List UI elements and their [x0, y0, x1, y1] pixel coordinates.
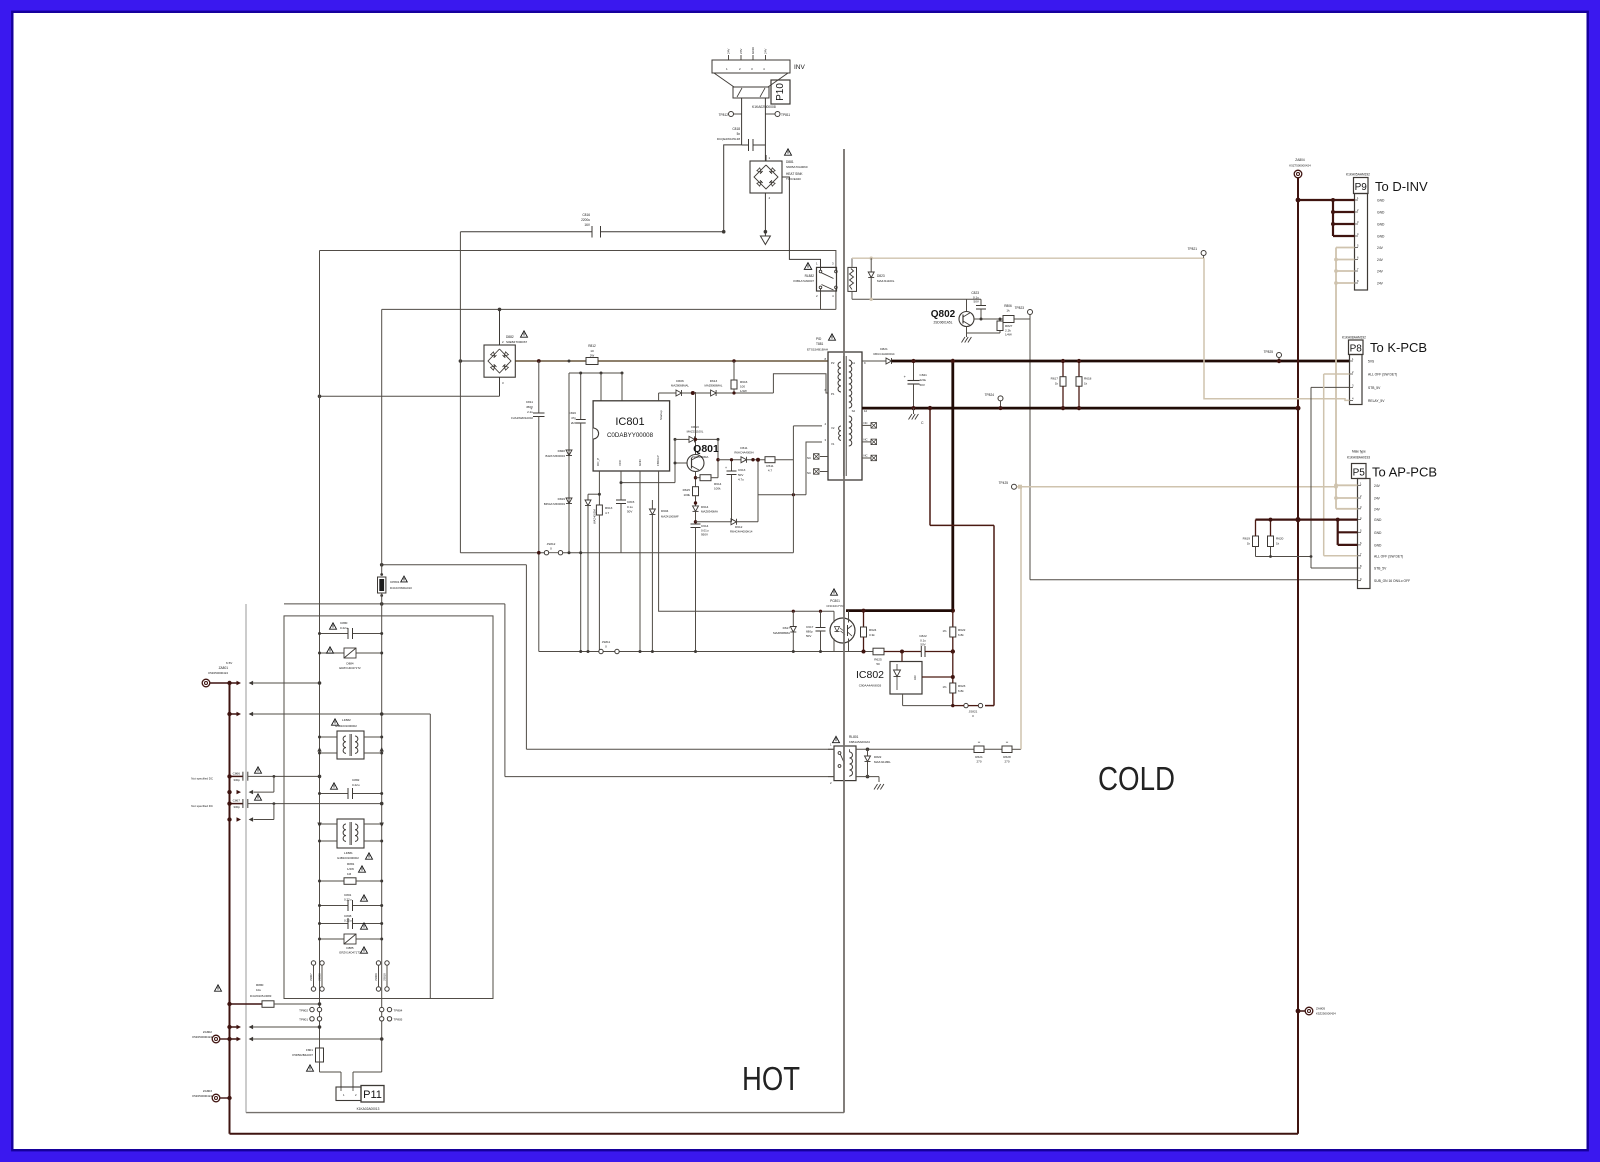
svg-text:RELAY_5V: RELAY_5V [1368, 399, 1385, 403]
svg-text:2.2u: 2.2u [527, 410, 533, 414]
svg-text:1k: 1k [1276, 542, 1280, 546]
svg-text:ALL OFF (SW DET): ALL OFF (SW DET) [1368, 373, 1397, 377]
svg-text:950V: 950V [701, 533, 708, 537]
svg-text:220u: 220u [920, 378, 927, 382]
svg-text:5VS: 5VS [1368, 360, 1375, 364]
svg-text:HOT: HOT [742, 1060, 800, 1097]
svg-text:S0EB4T000067: S0EB4T000067 [506, 340, 528, 344]
svg-text:R880: R880 [256, 983, 264, 987]
svg-text:1%: 1% [942, 629, 947, 633]
svg-text:24V: 24V [764, 48, 768, 54]
svg-text:24V: 24V [1377, 282, 1384, 286]
svg-text:LF882: LF882 [342, 718, 351, 722]
svg-text:V2: V2 [831, 426, 835, 430]
svg-text:C614: C614 [701, 524, 709, 528]
svg-text:K1KA08AAM192: K1KA08AAM192 [1342, 336, 1366, 340]
svg-text:C818: C818 [732, 127, 740, 131]
svg-text:P10: P10 [775, 83, 786, 101]
svg-text:50V: 50V [806, 634, 811, 638]
svg-text:4.7: 4.7 [605, 511, 610, 515]
svg-text:TP825: TP825 [1264, 350, 1274, 354]
svg-text:100: 100 [740, 385, 745, 389]
svg-text:1%: 1% [942, 685, 947, 689]
svg-text:1/4W: 1/4W [740, 389, 747, 393]
svg-text:JS810: JS810 [383, 973, 387, 981]
svg-text:S1: S1 [852, 361, 856, 365]
svg-text:ERZV14D471T2: ERZV14D471T2 [339, 666, 361, 670]
svg-text:0.22u: 0.22u [340, 626, 348, 630]
svg-text:G4B1031000002: G4B1031000002 [335, 724, 357, 728]
svg-text:50V: 50V [920, 643, 925, 647]
svg-text:ALL OFF (SW DET): ALL OFF (SW DET) [1374, 554, 1403, 558]
svg-text:6.8k: 6.8k [958, 633, 964, 637]
svg-text:2SD0601A5L: 2SD0601A5L [934, 321, 953, 325]
svg-text:Not specified DC: Not specified DC [191, 777, 213, 781]
svg-text:MAZ8068MA: MAZ8068MA [773, 631, 790, 635]
svg-text:K1KA02A00013: K1KA02A00013 [357, 1107, 380, 1111]
svg-text:Male type: Male type [1352, 450, 1366, 454]
svg-text:P11: P11 [363, 1089, 382, 1101]
svg-text:330p: 330p [233, 805, 240, 809]
svg-text:NC: NC [807, 471, 811, 475]
svg-text:D612: D612 [735, 525, 743, 529]
svg-text:C821: C821 [920, 373, 928, 377]
svg-text:D819: D819 [558, 497, 566, 501]
svg-text:4.7: 4.7 [768, 469, 773, 473]
svg-text:JS809: JS809 [374, 973, 378, 981]
svg-text:GND: GND [1377, 199, 1385, 203]
svg-text:F2A2W2R2A002: F2A2W2R2A002 [511, 416, 533, 420]
svg-text:10u: 10u [256, 988, 261, 992]
svg-text:6.8k: 6.8k [958, 689, 964, 693]
svg-text:STB_5V: STB_5V [1374, 567, 1387, 571]
svg-text:12: 12 [864, 409, 868, 413]
svg-text:D821: D821 [880, 347, 888, 351]
svg-text:TP821: TP821 [1188, 247, 1198, 251]
svg-text:24V: 24V [739, 48, 743, 54]
svg-text:K5D502B4A007: K5D502B4A007 [292, 1053, 313, 1057]
svg-text:ZA802: ZA802 [203, 1030, 212, 1034]
svg-text:R617: R617 [1051, 377, 1059, 381]
svg-text:R812: R812 [588, 344, 596, 348]
svg-text:JS812: JS812 [547, 542, 556, 546]
svg-text:C90AA4AK8003: C90AA4AK8003 [859, 684, 882, 688]
svg-text:0.22u: 0.22u [344, 919, 352, 923]
svg-text:1k: 1k [1247, 542, 1251, 546]
svg-text:24V: 24V [1377, 246, 1384, 250]
svg-text:C880: C880 [340, 621, 348, 625]
svg-text:24V: 24V [1377, 258, 1384, 262]
svg-text:D823: D823 [877, 274, 885, 278]
svg-text:1k: 1k [1084, 382, 1088, 386]
svg-text:MAZJ11180L: MAZJ11180L [874, 760, 891, 764]
svg-text:FB/OLP: FB/OLP [656, 455, 660, 466]
svg-text:GND: GND [751, 46, 755, 54]
svg-text:R6HC4A4000H14: R6HC4A4000H14 [730, 530, 753, 534]
svg-text:24V: 24V [1374, 497, 1381, 501]
svg-text:INV: INV [794, 64, 806, 71]
svg-text:NC: NC [864, 454, 868, 458]
svg-text:C866: C866 [233, 772, 241, 776]
svg-text:2kV: 2kV [571, 421, 576, 425]
svg-text:C882: C882 [352, 778, 360, 782]
svg-text:RL882: RL882 [805, 274, 815, 278]
svg-text:To AP-PCB: To AP-PCB [1372, 465, 1437, 480]
svg-text:K6B1A7A60007: K6B1A7A60007 [793, 279, 814, 283]
svg-text:450V: 450V [526, 405, 533, 409]
svg-text:JS811: JS811 [602, 640, 611, 644]
svg-text:24V: 24V [1374, 484, 1381, 488]
svg-text:D4U/D105-D083: D4U/D105-D083 [250, 994, 272, 998]
svg-text:680p: 680p [806, 630, 813, 634]
svg-text:MAZ41000MF: MAZ41000MF [661, 515, 679, 519]
svg-text:GND: GND [1377, 235, 1385, 239]
svg-text:2SK2996MA: 2SK2996MA [692, 455, 709, 459]
svg-text:R621: R621 [975, 755, 983, 759]
svg-text:S6FBA70A0060: S6FBA70A0060 [786, 165, 808, 169]
svg-text:ZA805: ZA805 [1316, 1007, 1325, 1011]
svg-text:R613: R613 [605, 506, 613, 510]
svg-text:K5Z7500000424: K5Z7500000424 [1289, 164, 1311, 168]
svg-text:NC: NC [864, 421, 868, 425]
svg-text:0.22u: 0.22u [352, 783, 360, 787]
svg-text:TP425: TP425 [999, 481, 1009, 485]
svg-text:100k: 100k [683, 493, 690, 497]
svg-text:270: 270 [1004, 760, 1009, 764]
svg-text:R616: R616 [740, 380, 748, 384]
svg-text:VCC: VCC [618, 459, 622, 466]
svg-text:3.3k: 3.3k [869, 633, 875, 637]
svg-text:R615: R615 [683, 488, 691, 492]
svg-text:R6UC4A400014: R6UC4A400014 [873, 352, 894, 356]
svg-text:C816: C816 [582, 213, 590, 217]
svg-text:D606: D606 [676, 379, 684, 383]
svg-text:TP805: TP805 [394, 1018, 403, 1022]
svg-text:C816: C816 [569, 411, 577, 415]
svg-text:GND: GND [1377, 211, 1385, 215]
svg-text:F801: F801 [306, 1048, 313, 1052]
svg-text:MAZJ11100L: MAZJ11100L [877, 279, 895, 283]
svg-text:R624: R624 [869, 628, 877, 632]
svg-text:DCQE2W105L38: DCQE2W105L38 [717, 137, 741, 141]
svg-text:50V: 50V [738, 473, 743, 477]
svg-text:R806: R806 [1004, 304, 1012, 308]
svg-text:JS807: JS807 [309, 973, 313, 981]
svg-text:1k: 1k [1006, 309, 1010, 313]
svg-text:JS808: JS808 [318, 973, 322, 981]
svg-text:R619: R619 [1243, 537, 1251, 541]
svg-text:GND: GND [1374, 543, 1382, 547]
svg-text:R623: R623 [958, 684, 966, 688]
svg-text:D611: D611 [740, 446, 747, 450]
svg-text:D885: D885 [346, 946, 354, 950]
svg-text:Q801: Q801 [693, 443, 719, 455]
svg-text:2200u: 2200u [581, 218, 590, 222]
svg-text:50: 50 [876, 662, 880, 666]
svg-text:D617: D617 [783, 626, 791, 630]
svg-text:1k: 1k [1055, 382, 1059, 386]
svg-text:24V: 24V [1377, 270, 1384, 274]
svg-text:330p: 330p [233, 778, 240, 782]
svg-text:WAZ4003M: WAZ4003M [593, 509, 597, 524]
svg-text:B45AA72600001: B45AA72600001 [544, 502, 566, 506]
svg-text:ZA804: ZA804 [1295, 158, 1305, 162]
svg-text:R611: R611 [766, 464, 773, 468]
svg-text:LF881: LF881 [344, 851, 353, 855]
svg-text:D884: D884 [346, 662, 354, 666]
svg-text:K5Z250000424: K5Z250000424 [1316, 1012, 1336, 1016]
svg-text:PID: PID [816, 337, 822, 341]
svg-text:S2: S2 [852, 409, 856, 413]
svg-text:PC801: PC801 [830, 599, 840, 603]
svg-text:K1KA08AA0193: K1KA08AA0193 [1347, 456, 1370, 460]
svg-text:K1KA02N00008: K1KA02N00008 [752, 105, 776, 109]
svg-text:0.1u: 0.1u [627, 505, 633, 509]
svg-text:V1: V1 [831, 442, 835, 446]
svg-text:+: + [725, 466, 727, 470]
svg-text:COLD: COLD [1098, 760, 1175, 797]
svg-text:C801: C801 [344, 893, 352, 897]
svg-text:T881: T881 [816, 342, 823, 346]
svg-text:To K-PCB: To K-PCB [1370, 340, 1427, 355]
svg-text:To D-INV: To D-INV [1375, 179, 1428, 194]
svg-text:P2: P2 [831, 361, 835, 365]
svg-text:GND: GND [638, 459, 642, 467]
svg-text:R625: R625 [874, 658, 882, 662]
svg-text:CP801: CP801 [390, 580, 400, 584]
svg-text:ERZV14D471T2: ERZV14D471T2 [339, 951, 361, 955]
svg-text:CNC1017YR: CNC1017YR [826, 604, 844, 608]
svg-text:D822: D822 [874, 755, 882, 759]
svg-text:TP824: TP824 [985, 393, 995, 397]
svg-text:D820: D820 [558, 449, 566, 453]
svg-text:50V: 50V [973, 300, 979, 304]
svg-text:C617: C617 [806, 625, 814, 629]
svg-text:5x: 5x [737, 132, 741, 136]
svg-text:4.7u: 4.7u [738, 478, 744, 482]
svg-text:GND: GND [1377, 223, 1385, 227]
svg-text:JS821: JS821 [969, 710, 978, 714]
svg-text:K5Z250000424: K5Z250000424 [192, 1094, 212, 1098]
svg-text:R620: R620 [1276, 537, 1284, 541]
svg-text:GND: GND [1374, 531, 1382, 535]
svg-text:ZA801: ZA801 [219, 666, 229, 670]
svg-text:MAZ8340MA: MAZ8340MA [701, 510, 718, 514]
svg-text:D614: D614 [701, 505, 709, 509]
svg-text:STB_5V: STB_5V [1368, 386, 1381, 390]
svg-text:C613: C613 [738, 468, 746, 472]
svg-text:TP804: TP804 [394, 1009, 403, 1013]
svg-text:16V: 16V [584, 223, 591, 227]
svg-text:24V: 24V [727, 48, 731, 54]
svg-text:A1F: A1F [913, 675, 917, 680]
svg-text:K6B1A5A600A3: K6B1A5A600A3 [849, 740, 870, 744]
svg-text:TP802: TP802 [299, 1009, 308, 1013]
svg-text:C808: C808 [344, 914, 352, 918]
svg-text:R881: R881 [347, 862, 355, 866]
svg-text:R618: R618 [1084, 377, 1092, 381]
svg-text:24V: 24V [1374, 507, 1381, 511]
svg-text:C0DABYY00008: C0DABYY00008 [607, 432, 654, 439]
svg-text:Not specified DC: Not specified DC [191, 804, 213, 808]
svg-text:R614: R614 [714, 482, 722, 486]
svg-text:TUIC/E040: TUIC/E040 [786, 177, 801, 181]
svg-text:R6HC4A4000H: R6HC4A4000H [734, 451, 753, 455]
svg-text:D881: D881 [786, 160, 794, 164]
svg-text:1M: 1M [347, 872, 352, 876]
svg-text:270: 270 [976, 760, 981, 764]
svg-text:IC801: IC801 [615, 416, 644, 428]
svg-text:TP812: TP812 [719, 113, 729, 117]
svg-text:P9: P9 [1355, 182, 1368, 193]
svg-text:HEAT SINK: HEAT SINK [786, 172, 803, 176]
svg-text:SUB_ON 16 ON/Lo OFF: SUB_ON 16 ON/Lo OFF [1374, 579, 1410, 583]
svg-text:P1: P1 [831, 392, 835, 396]
svg-text:D882: D882 [506, 335, 514, 339]
svg-text:G4B1031000002: G4B1031000002 [337, 856, 359, 860]
svg-text:MAZ8068MAL: MAZ8068MAL [705, 384, 723, 388]
svg-text:Startup: Startup [659, 410, 663, 420]
svg-text:2W: 2W [590, 354, 595, 358]
svg-text:10: 10 [590, 349, 594, 353]
svg-text:D613: D613 [710, 379, 718, 383]
svg-text:50V: 50V [627, 510, 632, 514]
svg-text:IC802: IC802 [856, 669, 884, 681]
svg-text:TP801: TP801 [299, 1018, 308, 1022]
svg-text:C867: C867 [233, 799, 241, 803]
svg-text:K5Z250000424: K5Z250000424 [208, 671, 228, 675]
svg-text:P5: P5 [1353, 468, 1366, 479]
svg-text:K5Z250000424: K5Z250000424 [192, 1035, 212, 1039]
svg-text:1/2W: 1/2W [347, 867, 354, 871]
svg-text:B4ZA72600043: B4ZA72600043 [546, 454, 566, 458]
svg-text:TP823: TP823 [1015, 306, 1025, 310]
svg-text:R622: R622 [958, 628, 966, 632]
svg-text:C815: C815 [627, 500, 635, 504]
svg-text:ETS15AB1BAH: ETS15AB1BAH [807, 348, 828, 352]
svg-text:OC_P: OC_P [596, 458, 600, 466]
svg-text:6.5V: 6.5V [226, 661, 233, 665]
svg-text:MAZ8068MAL: MAZ8068MAL [671, 384, 689, 388]
svg-text:47p: 47p [571, 416, 576, 420]
svg-text:C823: C823 [971, 291, 979, 295]
svg-text:C822: C822 [919, 634, 927, 638]
svg-text:D4CAY0M0A010: D4CAY0M0A010 [390, 586, 412, 590]
svg-text:P8: P8 [1350, 344, 1363, 355]
svg-text:ZA803: ZA803 [203, 1089, 212, 1093]
svg-text:D604: D604 [661, 509, 669, 513]
svg-text:TP811: TP811 [781, 113, 790, 117]
svg-text:50V: 50V [920, 383, 925, 387]
svg-text:C811: C811 [526, 400, 533, 404]
svg-text:NC: NC [807, 456, 811, 460]
svg-text:100k: 100k [714, 487, 721, 491]
svg-text:K1KA05AAM192: K1KA05AAM192 [1346, 173, 1370, 177]
svg-text:RL801: RL801 [849, 735, 859, 739]
svg-text:R628: R628 [1003, 755, 1011, 759]
svg-text:R827: R827 [1005, 324, 1013, 328]
svg-text:Q802: Q802 [931, 309, 956, 320]
svg-text:GND: GND [1374, 518, 1382, 522]
svg-text:0.22u: 0.22u [344, 898, 352, 902]
svg-text:1/4W: 1/4W [1005, 333, 1012, 337]
svg-text:NC: NC [864, 438, 868, 442]
